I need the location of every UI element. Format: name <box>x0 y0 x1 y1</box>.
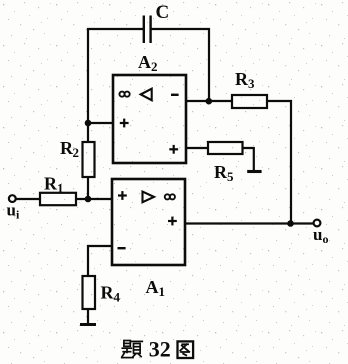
svg-text:C: C <box>156 2 170 23</box>
resistor R1 <box>40 193 76 205</box>
infinity A1 <box>165 194 175 199</box>
resistor R2 <box>83 142 95 177</box>
plus A2 bottom-right <box>169 145 178 154</box>
ground (R5) <box>247 170 261 173</box>
wire <box>88 29 143 123</box>
wire <box>87 309 89 324</box>
triangle A1 (points right) <box>143 192 155 203</box>
resistor R5 <box>208 142 243 154</box>
triangle A2 (points left) <box>141 89 152 101</box>
minus A2 <box>171 94 179 96</box>
wire <box>185 222 314 224</box>
terminal ui <box>9 195 16 202</box>
op-amp A1 <box>112 179 185 265</box>
resistor R3 <box>232 95 267 108</box>
op-amp A2 <box>113 75 186 163</box>
node T <box>287 220 294 227</box>
terminal uo <box>314 220 321 227</box>
hanzi tu (图) <box>178 341 194 358</box>
op-amp A1 internals <box>118 191 177 248</box>
caption: 题 32 图 <box>122 337 193 362</box>
resistor R4 <box>83 276 96 309</box>
wire <box>186 147 208 149</box>
wire <box>76 198 112 200</box>
plus A1 top-left <box>118 191 127 200</box>
wire <box>243 148 254 171</box>
ground (R4) <box>80 323 96 326</box>
wire <box>151 29 209 101</box>
plus A2 left <box>120 119 129 128</box>
infinity A2 <box>119 92 129 97</box>
wire <box>88 246 112 276</box>
minus A1 <box>118 247 126 249</box>
wire <box>88 122 113 124</box>
wire <box>87 123 89 142</box>
capacitor C <box>144 16 151 44</box>
op-amp A2 internals <box>119 89 178 154</box>
node Q <box>85 120 92 127</box>
wire <box>186 100 232 102</box>
wire <box>267 101 291 224</box>
wire <box>87 177 89 199</box>
plus A1 right <box>168 217 177 226</box>
node S <box>206 98 213 105</box>
node P <box>85 196 92 203</box>
hanzi ti (题) <box>122 341 143 358</box>
svg-text:32: 32 <box>149 337 171 362</box>
wire <box>16 198 40 200</box>
